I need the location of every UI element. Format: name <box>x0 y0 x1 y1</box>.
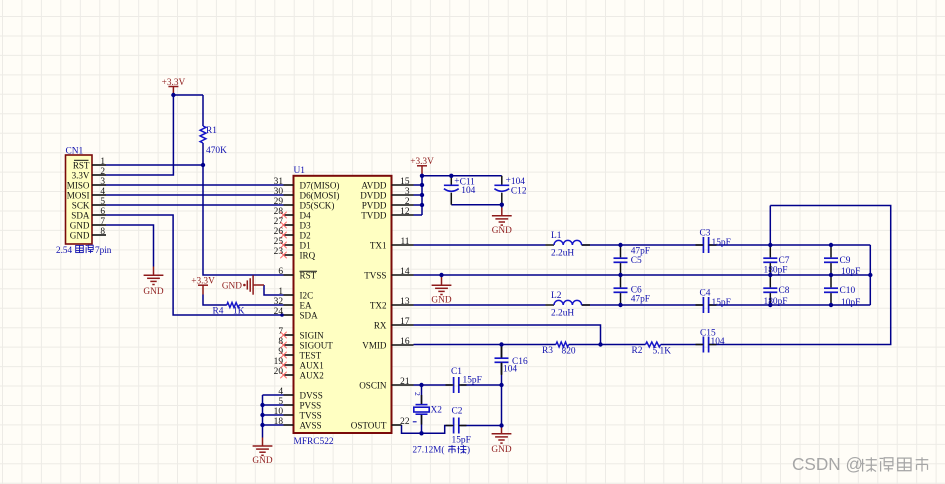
svg-text:IRQ: IRQ <box>300 251 316 261</box>
svg-text:180pF: 180pF <box>764 297 788 307</box>
svg-text:15pF: 15pF <box>712 298 731 308</box>
svg-text:10: 10 <box>274 407 284 417</box>
svg-text:): ) <box>467 445 470 455</box>
svg-text:C9: C9 <box>840 256 851 266</box>
svg-text:OSTOUT: OSTOUT <box>351 421 387 431</box>
svg-text:D4: D4 <box>300 211 312 221</box>
svg-text:RST: RST <box>73 161 90 171</box>
svg-text:18: 18 <box>274 417 284 427</box>
svg-text:25: 25 <box>274 237 284 247</box>
svg-text:26: 26 <box>274 227 284 237</box>
svg-text:L1: L1 <box>551 231 562 241</box>
svg-text:4: 4 <box>100 187 105 197</box>
svg-text:1: 1 <box>278 287 283 297</box>
svg-text:GND: GND <box>252 456 272 466</box>
svg-text:I2C: I2C <box>300 291 314 301</box>
svg-text:10pF: 10pF <box>841 298 860 308</box>
svg-text:GND: GND <box>143 287 163 297</box>
svg-text:AVDD: AVDD <box>361 181 387 191</box>
svg-text:104: 104 <box>511 177 525 187</box>
svg-text:14: 14 <box>400 267 410 277</box>
svg-text:1K: 1K <box>233 307 245 317</box>
svg-text:C5: C5 <box>631 256 642 266</box>
svg-text:17: 17 <box>400 317 410 327</box>
svg-text:R4: R4 <box>213 307 224 317</box>
svg-text:3: 3 <box>405 187 410 197</box>
svg-text:7: 7 <box>100 217 105 227</box>
svg-text:470K: 470K <box>206 146 227 156</box>
svg-text:32: 32 <box>274 297 284 307</box>
svg-text:EA: EA <box>300 301 313 311</box>
svg-text:47pF: 47pF <box>631 247 650 257</box>
svg-text:R3: R3 <box>542 346 553 356</box>
svg-text:X2: X2 <box>431 406 443 416</box>
svg-text:GND: GND <box>491 445 511 455</box>
svg-text:23: 23 <box>274 247 284 257</box>
svg-text:TX1: TX1 <box>370 241 387 251</box>
svg-text:DVDD: DVDD <box>360 191 387 201</box>
svg-text:30: 30 <box>274 187 284 197</box>
svg-text:D6(MOSI): D6(MOSI) <box>300 191 340 201</box>
svg-text:2.2uH: 2.2uH <box>551 249 574 259</box>
svg-text:16: 16 <box>400 337 410 347</box>
svg-text:L2: L2 <box>551 291 562 301</box>
svg-text:11: 11 <box>400 237 409 247</box>
svg-text:104: 104 <box>503 365 517 375</box>
svg-text:7pin: 7pin <box>95 245 112 255</box>
svg-text:RX: RX <box>374 321 387 331</box>
svg-text:8: 8 <box>278 337 283 347</box>
svg-text:SIGIN: SIGIN <box>300 331 325 341</box>
svg-text:C3: C3 <box>700 229 711 239</box>
svg-text:AUX1: AUX1 <box>300 361 324 371</box>
svg-text:SCK: SCK <box>72 201 90 211</box>
svg-text:10pF: 10pF <box>841 267 860 277</box>
svg-text:31: 31 <box>274 177 284 187</box>
svg-text:RST: RST <box>300 271 317 281</box>
svg-text:C8: C8 <box>779 286 790 296</box>
svg-text:7: 7 <box>278 327 283 337</box>
svg-text:180pF: 180pF <box>764 266 788 276</box>
svg-text:2.54: 2.54 <box>56 245 72 255</box>
svg-text:C4: C4 <box>700 289 711 299</box>
svg-text:820: 820 <box>562 347 576 357</box>
svg-text:15pF: 15pF <box>463 376 482 386</box>
svg-text:22: 22 <box>400 417 410 427</box>
svg-text:AVSS: AVSS <box>300 421 322 431</box>
svg-text:GND: GND <box>222 282 242 292</box>
svg-text:GND: GND <box>492 226 512 236</box>
svg-text:C12: C12 <box>511 187 527 197</box>
svg-text:OSCIN: OSCIN <box>359 381 387 391</box>
svg-text:DVSS: DVSS <box>300 391 323 401</box>
svg-text:104: 104 <box>711 337 725 347</box>
svg-text:GND: GND <box>70 221 90 231</box>
svg-text:TX2: TX2 <box>370 301 387 311</box>
svg-text:27: 27 <box>274 217 284 227</box>
svg-text:27.12M(: 27.12M( <box>413 445 445 455</box>
svg-text:TVSS: TVSS <box>300 411 322 421</box>
svg-text:13: 13 <box>400 297 410 307</box>
svg-text:SDA: SDA <box>71 211 90 221</box>
svg-text:20: 20 <box>274 367 284 377</box>
svg-text:PVSS: PVSS <box>300 401 322 411</box>
svg-text:AUX2: AUX2 <box>300 371 325 381</box>
svg-text:TVSS: TVSS <box>364 271 386 281</box>
svg-text:12: 12 <box>400 207 410 217</box>
svg-text:D1: D1 <box>300 241 311 251</box>
svg-text:47pF: 47pF <box>631 295 650 305</box>
svg-text:R2: R2 <box>632 346 643 356</box>
svg-text:C10: C10 <box>840 286 856 296</box>
svg-text:C1: C1 <box>451 367 462 377</box>
svg-text:5: 5 <box>100 197 105 207</box>
svg-text:8: 8 <box>100 227 105 237</box>
svg-text:104: 104 <box>461 186 475 196</box>
svg-text:SIGOUT: SIGOUT <box>300 341 334 351</box>
svg-text:R1: R1 <box>206 126 217 136</box>
svg-text:CN1: CN1 <box>66 147 84 157</box>
svg-text:GND: GND <box>431 296 451 306</box>
svg-text:2: 2 <box>100 167 105 177</box>
svg-text:19: 19 <box>274 357 284 367</box>
svg-text:CSDN @: CSDN @ <box>792 454 863 474</box>
svg-text:21: 21 <box>400 377 410 387</box>
svg-text:5: 5 <box>278 397 283 407</box>
svg-text:2.2uH: 2.2uH <box>551 309 574 319</box>
svg-text:6: 6 <box>100 207 105 217</box>
svg-text:6: 6 <box>278 267 283 277</box>
svg-text:2: 2 <box>405 197 410 207</box>
svg-text:2: 2 <box>413 392 422 396</box>
svg-text:U1: U1 <box>294 166 306 176</box>
svg-text:1: 1 <box>100 157 105 167</box>
svg-text:4: 4 <box>278 387 283 397</box>
svg-text:28: 28 <box>274 207 284 217</box>
svg-text:C7: C7 <box>779 256 790 266</box>
svg-text:D5(SCK): D5(SCK) <box>300 201 335 211</box>
svg-text:3.3V: 3.3V <box>72 171 90 181</box>
svg-text:15pF: 15pF <box>712 238 731 248</box>
svg-text:9: 9 <box>278 347 283 357</box>
svg-text:MISO: MISO <box>67 181 90 191</box>
svg-text:MOSI: MOSI <box>67 191 90 201</box>
svg-text:D3: D3 <box>300 221 312 231</box>
svg-text:TVDD: TVDD <box>361 211 387 221</box>
svg-text:GND: GND <box>70 231 90 241</box>
svg-text:3: 3 <box>100 177 105 187</box>
svg-text:D7(MISO): D7(MISO) <box>300 181 340 191</box>
svg-text:TEST: TEST <box>300 351 322 361</box>
svg-text:VMID: VMID <box>362 341 387 351</box>
svg-text:PVDD: PVDD <box>362 201 387 211</box>
svg-text:24: 24 <box>274 307 284 317</box>
svg-text:15: 15 <box>400 177 410 187</box>
svg-text:29: 29 <box>274 197 284 207</box>
svg-text:5.1K: 5.1K <box>653 347 672 357</box>
svg-text:SDA: SDA <box>300 311 319 321</box>
svg-text:C2: C2 <box>452 407 463 417</box>
svg-text:MFRC522: MFRC522 <box>294 437 334 447</box>
svg-text:D2: D2 <box>300 231 312 241</box>
